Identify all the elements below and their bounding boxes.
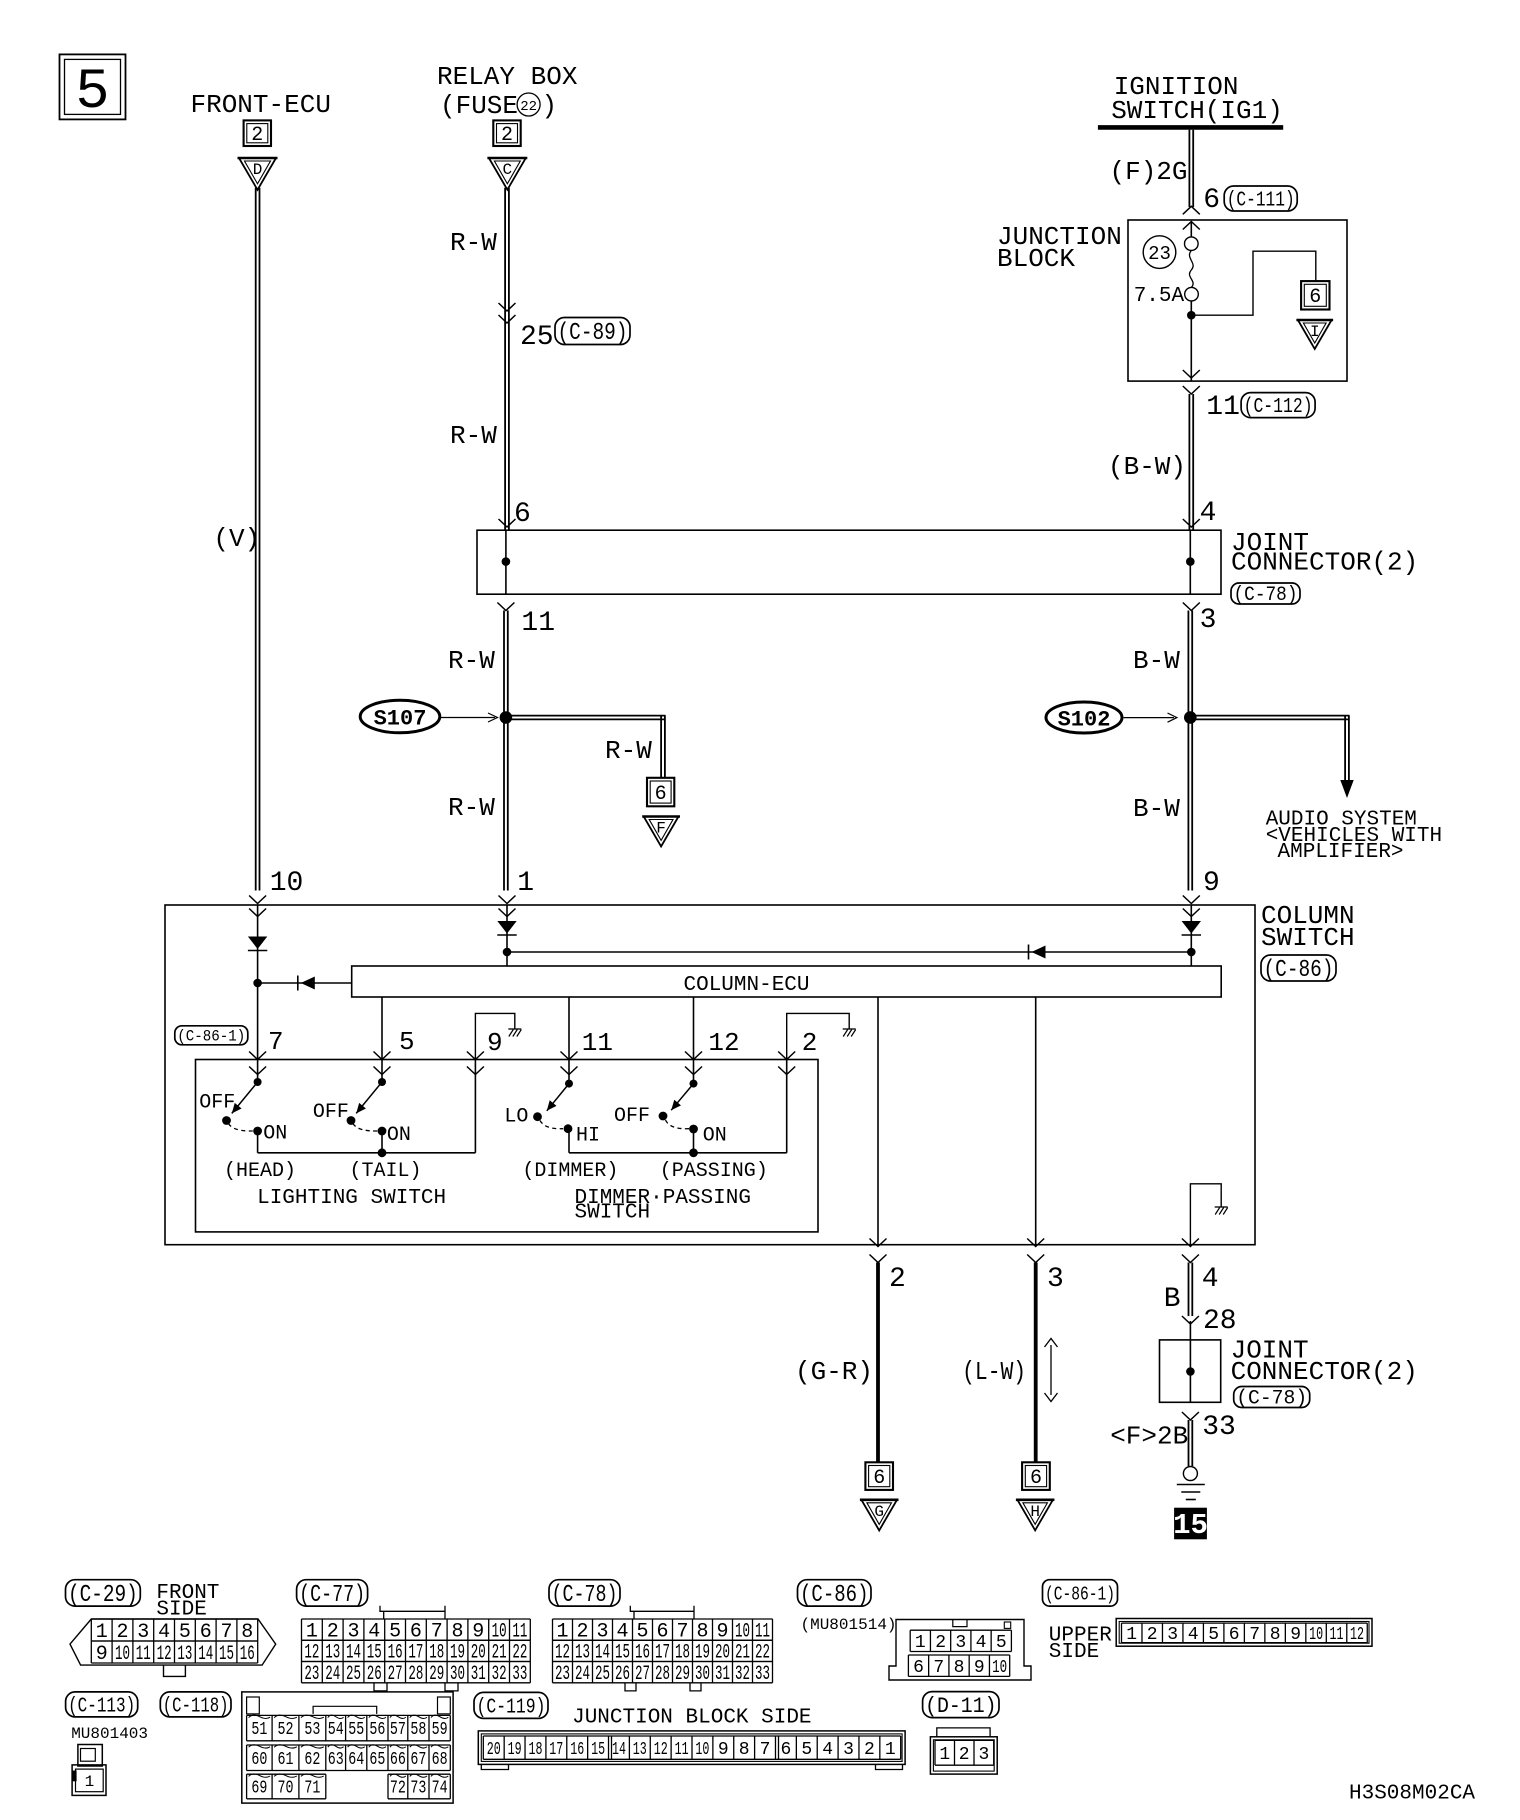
svg-text:7: 7 [760,1740,771,1760]
svg-text:65: 65 [369,1750,385,1770]
svg-text:ON: ON [263,1123,287,1146]
svg-text:LO: LO [504,1105,528,1128]
lighting switch HEAD common contact [254,1060,262,1087]
svg-text:23: 23 [555,1663,570,1686]
svg-text:68: 68 [432,1750,448,1770]
svg-text:BLOCK: BLOCK [997,244,1075,274]
svg-text:(C-86): (C-86) [1264,957,1334,984]
svg-text:60: 60 [251,1750,267,1770]
connector C-29 pinout (front side) [66,1580,276,1677]
two-way arrow [1045,1339,1058,1402]
svg-text:(F)2G: (F)2G [1110,157,1188,187]
svg-text:15: 15 [219,1643,234,1666]
svg-text:SWITCH: SWITCH [575,1202,651,1225]
triangle connector C [487,158,527,190]
svg-text:(C-77): (C-77) [299,1582,365,1609]
svg-text:3: 3 [1167,1625,1178,1645]
splice S107 pointer arrow [441,713,498,722]
svg-text:10: 10 [1309,1625,1323,1645]
svg-text:MU801403: MU801403 [71,1725,148,1743]
svg-text:4: 4 [976,1633,987,1653]
chassis ground (column switch) [1215,1207,1228,1215]
FRONT-ECU terminal box 2 [244,120,271,147]
svg-text:1: 1 [885,1740,896,1760]
svg-text:(C-111): (C-111) [1227,190,1295,213]
joint connector node left [502,557,511,566]
svg-text:ON: ON [703,1125,727,1148]
svg-text:CONNECTOR(2): CONNECTOR(2) [1231,548,1418,578]
svg-text:57: 57 [390,1720,406,1740]
svg-text:(C-113): (C-113) [68,1695,135,1718]
splice S102 pointer arrow [1124,713,1177,722]
svg-text:(MU801514): (MU801514) [801,1616,897,1634]
wire (B-W) junction block to joint connector [1189,394,1193,530]
svg-text:2: 2 [1147,1625,1158,1645]
splice label S102 [1046,702,1122,733]
svg-text:63: 63 [328,1750,344,1770]
svg-text:7: 7 [1249,1625,1260,1645]
svg-text:7: 7 [268,1027,284,1057]
svg-text:24: 24 [575,1663,590,1686]
svg-text:4: 4 [822,1740,833,1760]
svg-text:9: 9 [1203,868,1220,899]
svg-text:33: 33 [1202,1412,1236,1443]
svg-text:62: 62 [304,1750,320,1770]
svg-text:1: 1 [517,868,534,899]
svg-text:(B-W): (B-W) [1108,452,1186,482]
svg-text:12: 12 [1350,1625,1364,1645]
svg-text:(D-11): (D-11) [925,1694,996,1719]
svg-text:SIDE: SIDE [156,1599,206,1622]
svg-text:31: 31 [715,1663,730,1686]
svg-text:4: 4 [1200,498,1217,529]
svg-text:2: 2 [501,124,513,147]
svg-text:10: 10 [270,868,304,899]
svg-text:11: 11 [582,1028,613,1058]
svg-text:23: 23 [304,1663,319,1686]
wire into joint connector [1189,1321,1191,1340]
node pin 10 branch [253,979,262,988]
svg-text:29: 29 [675,1663,690,1686]
svg-text:19: 19 [508,1740,522,1760]
ground wire passing switch pin 2 [787,1013,850,1059]
svg-text:5: 5 [399,1027,415,1057]
svg-text:3: 3 [955,1633,966,1653]
svg-text:10: 10 [695,1740,709,1760]
internal bus pin1 to pin9 [507,951,1191,953]
svg-text:23: 23 [1148,243,1171,265]
svg-text:(G-R): (G-R) [795,1357,873,1387]
joint connector entry arrows [499,519,1200,527]
PASSING dashed throw [666,1120,690,1129]
svg-text:2: 2 [864,1740,875,1760]
svg-text:24: 24 [325,1663,340,1686]
terminal box 6 (F) [647,778,674,807]
wire column-ecu to lighting switch pin 5 [381,997,383,1060]
column switch exit arrows pin 3 [1027,1239,1044,1263]
svg-text:28: 28 [655,1663,670,1686]
svg-text:71: 71 [304,1779,320,1799]
triangle connector H [1016,1500,1055,1531]
svg-text:SWITCH: SWITCH [1261,923,1355,953]
joint connector (2) box C-78 lower [1160,1340,1221,1402]
svg-text:7.5A: 7.5A [1134,285,1185,308]
svg-text:(C-86-1): (C-86-1) [177,1028,245,1046]
TAIL OFF contact [347,1116,356,1125]
svg-text:25: 25 [520,322,554,353]
svg-text:30: 30 [695,1663,710,1686]
svg-text:61: 61 [278,1750,294,1770]
svg-text:2: 2 [935,1633,946,1653]
svg-text:B: B [1164,1284,1181,1315]
terminal box 6 (I) [1301,281,1329,309]
wire B-W branch to audio system [1190,715,1353,798]
svg-text:F: F [656,820,666,838]
svg-text:11: 11 [1206,392,1240,423]
svg-text:3: 3 [978,1745,989,1765]
svg-text:(C-118): (C-118) [163,1695,229,1718]
TAIL dashed throw [353,1124,378,1132]
joint connector 2 internal wire [1189,1340,1191,1402]
svg-text:S102: S102 [1058,708,1111,733]
svg-text:6: 6 [655,783,667,806]
svg-text:22: 22 [520,99,537,115]
svg-text:26: 26 [367,1663,382,1686]
svg-text:9: 9 [1290,1625,1301,1645]
PASSING ON wire down [693,1129,695,1153]
column switch exit arrows pin 2 [870,1239,887,1263]
svg-text:2: 2 [959,1745,970,1765]
svg-text:(TAIL): (TAIL) [350,1160,422,1183]
fuse 23 symbol [1185,222,1199,302]
connector D-11 pinout [923,1692,999,1775]
svg-text:69: 69 [251,1779,267,1799]
svg-text:2: 2 [251,124,263,147]
HEAD OFF contact [222,1116,231,1125]
RELAY BOX terminal box 2 [493,120,520,147]
ignition switch bus bar [1098,125,1283,130]
joint connector 2 entry arrow [1182,1316,1199,1324]
svg-text:33: 33 [755,1663,770,1686]
svg-text:8: 8 [739,1740,750,1760]
svg-text:14: 14 [612,1740,626,1760]
svg-text:(PASSING): (PASSING) [660,1160,768,1183]
column switch entry arrows pin 9 [1183,896,1200,917]
svg-text:3: 3 [843,1740,854,1760]
wire column-ecu to pin 2 output [877,997,879,1245]
triangle connector I [1296,320,1333,349]
svg-text:B-W: B-W [1133,646,1180,676]
svg-text:14: 14 [198,1643,213,1666]
JUNCTION BLOCK label [997,222,1122,274]
wire 2B to ground [1189,1420,1193,1466]
svg-text:56: 56 [369,1720,385,1740]
connector C-77 pinout [297,1580,531,1691]
svg-text:6: 6 [1030,1467,1042,1490]
svg-text:(FUSE: (FUSE [440,91,518,121]
svg-text:66: 66 [390,1750,406,1770]
joint connector (2) box C-78 [477,530,1221,594]
svg-text:D: D [253,161,263,179]
connector label C-78 lower [1234,1387,1310,1411]
fuse number circled 23 [1143,236,1176,269]
wire (F)2G ignition to junction block [1189,130,1193,207]
PASSING switch arm [668,1084,694,1113]
svg-text:(C-112): (C-112) [1244,396,1313,419]
lighting switch common bus [258,1152,476,1154]
terminal box 6 (H) [1022,1462,1050,1490]
svg-text:11: 11 [1330,1625,1344,1645]
svg-text:16: 16 [570,1740,584,1760]
wire (G-R) to connector G [876,1263,880,1463]
svg-text:8: 8 [954,1658,965,1678]
connector label C-86 [1261,955,1336,984]
direction triangle pin 10 [248,937,267,951]
joint connector node right [1186,557,1195,566]
svg-text:18: 18 [529,1740,543,1760]
HEAD switch arm [228,1082,257,1116]
dimmer switch common contact [565,1060,573,1088]
svg-text:(HEAD): (HEAD) [224,1160,296,1183]
svg-text:32: 32 [735,1663,750,1686]
wire R-W splice S107 to column switch pin 1 [504,718,508,891]
joint connector 2 exit arrow [1182,1412,1199,1420]
wire column-ecu to dimmer switch pin 11 [568,997,570,1060]
wire R-W joint connector to splice S107 [504,611,508,718]
svg-text:6: 6 [913,1658,924,1678]
wire R-W branch to connector F [506,715,665,778]
DIMMER HI contact [564,1124,573,1133]
COLUMN SWITCH label [1261,901,1355,953]
splice node S102 [1184,711,1197,724]
connector label C-89 [555,318,630,348]
wire column-ecu to passing switch pin 12 [693,997,695,1060]
column switch box [165,905,1255,1245]
connector C-86 pinout [798,1580,1032,1680]
HEAD dashed throw [229,1124,254,1132]
connector label C-78 [1231,583,1300,607]
svg-text:51: 51 [251,1720,267,1740]
triangle connector F [642,817,680,847]
svg-text:26: 26 [615,1663,630,1686]
wire B-W splice S102 to column switch pin 9 [1188,718,1192,891]
passing switch common contact [690,1060,698,1088]
connector C-113 pinout [66,1692,148,1796]
wire B-W joint connector to splice S102 [1188,611,1192,718]
TAIL ON contact [378,1127,387,1136]
ground tap wire pin 4 [1190,1184,1221,1245]
svg-text:OFF: OFF [313,1101,349,1124]
svg-text:H3S08M02CA: H3S08M02CA [1349,1783,1475,1806]
svg-text:25: 25 [595,1663,610,1686]
svg-text:CONNECTOR(2): CONNECTOR(2) [1231,1357,1418,1387]
DIMMER dashed throw [540,1121,563,1129]
svg-text:RELAY BOX: RELAY BOX [437,62,578,92]
joint connector internal wire right [1189,530,1191,594]
TAIL switch arm [353,1082,382,1116]
svg-text:9: 9 [96,1643,108,1666]
wire (V) FRONT-ECU to column switch pin 10 [256,188,260,891]
lighting switch TAIL common contact [378,1060,386,1087]
svg-text:27: 27 [635,1663,650,1686]
svg-text:15: 15 [591,1740,605,1760]
junction block box [1128,220,1347,381]
terminal box 6 (G) [865,1462,893,1490]
DIMMER HI wire down [568,1129,570,1153]
svg-text:9: 9 [487,1028,503,1058]
wire junction dot to block exit [1190,315,1192,381]
svg-text:COLUMN-ECU: COLUMN-ECU [683,974,809,997]
svg-text:70: 70 [278,1779,294,1799]
connector C-89 crossing arrows [499,303,516,323]
AUDIO SYSTEM note [1266,809,1442,865]
connector C-112 crossing arrows [1183,370,1200,394]
connector label C-111 [1224,186,1297,213]
svg-text:H: H [1030,1503,1040,1521]
svg-text:): ) [542,91,558,121]
svg-text:12: 12 [654,1740,668,1760]
direction triangle pin 9 [1182,921,1201,935]
svg-text:9: 9 [718,1740,729,1760]
switch captions [224,1160,768,1183]
connector label C-112 [1241,393,1315,420]
svg-text:13: 13 [177,1643,192,1666]
svg-text:11: 11 [675,1740,689,1760]
HEAD ON contact [253,1127,262,1136]
svg-text:SIDE: SIDE [1049,1641,1099,1664]
joint connector 2 node [1186,1367,1195,1376]
wire fuse to junction dot [1190,301,1192,315]
svg-text:G: G [874,1503,884,1521]
svg-text:52: 52 [278,1720,294,1740]
svg-text:(C-78): (C-78) [1236,1388,1307,1411]
svg-text:HI: HI [576,1125,600,1148]
joint connector internal wire left [505,530,507,594]
svg-text:11: 11 [521,608,555,639]
svg-text:B-W: B-W [1133,794,1180,824]
svg-text:R-W: R-W [450,228,497,258]
svg-text:6: 6 [873,1467,885,1490]
chassis ground (lighting switch) [508,1029,521,1037]
svg-text:25: 25 [346,1663,361,1686]
svg-text:16: 16 [240,1643,255,1666]
svg-text:R-W: R-W [448,793,495,823]
svg-text:8: 8 [1270,1625,1281,1645]
earth ground symbol [1177,1467,1205,1500]
svg-text:R-W: R-W [448,646,495,676]
svg-text:3: 3 [1047,1264,1064,1295]
svg-text:ON: ON [387,1124,411,1147]
svg-text:28: 28 [1203,1306,1237,1337]
connector C-86-1 pinout (upper side) [1043,1580,1373,1664]
svg-text:(C-86-1): (C-86-1) [1045,1583,1115,1605]
svg-text:72: 72 [390,1779,406,1799]
switch pin labels [268,1027,817,1058]
svg-text:AMPLIFIER>: AMPLIFIER> [1278,841,1404,864]
node PASSING on bus [689,1148,698,1157]
branch wire to connector I [1191,251,1316,315]
DIMMER LO contact [533,1112,542,1121]
svg-text:I: I [1310,323,1320,341]
svg-text:10: 10 [992,1658,1007,1678]
svg-text:6: 6 [1203,185,1220,216]
svg-text:(C-119): (C-119) [477,1696,546,1719]
direction triangle pin 1 [497,921,516,935]
svg-text:17: 17 [549,1740,563,1760]
wire column-ecu to pin 3 output [1035,997,1037,1245]
joint connector exit arrows [497,603,1199,611]
ground wire lighting switch pin 9 [475,1013,514,1059]
junction node dot [1187,311,1196,320]
page reference 15 [1173,1508,1208,1542]
connector label C-86-1 [175,1026,248,1046]
TAIL ON wire down [381,1131,383,1153]
svg-text:59: 59 [432,1720,448,1740]
triangle connector G [860,1500,899,1531]
lighting/dimmer switch box [196,1060,819,1232]
DIMMER switch arm [543,1084,569,1114]
connector C-118 pinout [160,1692,453,1803]
svg-text:LIGHTING SWITCH: LIGHTING SWITCH [257,1187,446,1210]
column switch entry arrows pin 1 [499,896,516,917]
svg-text:11: 11 [136,1643,151,1666]
wire pin2 to common bus [786,1060,788,1153]
svg-text:53: 53 [304,1720,320,1740]
wire (L-W) to connector H [1034,1263,1038,1463]
svg-text:<F>2B: <F>2B [1110,1422,1188,1452]
svg-text:(DIMMER): (DIMMER) [522,1160,618,1183]
svg-text:R-W: R-W [605,736,652,766]
svg-text:10: 10 [115,1643,130,1666]
svg-text:58: 58 [410,1720,426,1740]
svg-text:JUNCTION BLOCK SIDE: JUNCTION BLOCK SIDE [572,1707,811,1730]
svg-text:(L-W): (L-W) [962,1357,1026,1387]
wire R-W relay box to joint connector [505,188,509,530]
svg-text:FRONT-ECU: FRONT-ECU [191,90,331,120]
splice label S107 [360,700,440,733]
svg-text:6: 6 [1309,286,1321,309]
page number box 5 [60,54,126,125]
connector C-119 pinout (junction block side) [474,1692,905,1769]
branch direction arrow [298,976,315,991]
svg-text:3: 3 [1200,605,1217,636]
DIMMER PASSING SWITCH caption [575,1187,751,1225]
svg-text:R-W: R-W [450,421,497,451]
svg-text:32: 32 [492,1663,507,1686]
svg-text:(C-78): (C-78) [1234,584,1298,607]
svg-text:S107: S107 [374,707,427,732]
column switch exit arrows pin 4 [1182,1239,1199,1263]
FUSE 22 label [440,91,557,121]
IGNITION SWITCH(IG1) label [1111,72,1283,126]
svg-text:C: C [503,161,513,179]
svg-text:12: 12 [157,1643,172,1666]
svg-text:1: 1 [915,1633,926,1653]
PASSING ON contact [689,1125,698,1134]
svg-text:4: 4 [1202,1264,1219,1295]
svg-text:1: 1 [1126,1625,1137,1645]
node pin 9 bus [1187,948,1196,957]
svg-text:33: 33 [512,1663,527,1686]
switch box entry arrows [249,1052,795,1075]
svg-text:(C-29): (C-29) [68,1582,138,1609]
svg-text:SWITCH(IG1): SWITCH(IG1) [1111,96,1283,126]
connector C-78 pinout [549,1580,773,1691]
svg-text:67: 67 [410,1750,426,1770]
wire pin 1 internal [506,905,508,966]
svg-text:2: 2 [889,1264,906,1295]
dimmer/passing common bus [569,1152,787,1154]
